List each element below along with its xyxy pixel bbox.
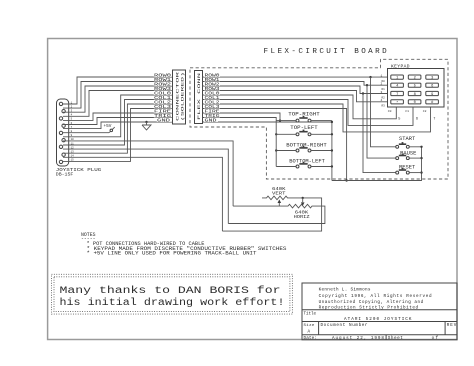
svg-text:Date:: Date: — [304, 336, 318, 341]
keypad U1 — [388, 63, 445, 107]
svg-text:Many thanks to DAN BORIS for: Many thanks to DAN BORIS for — [60, 285, 281, 296]
wire COL1 plug to connector — [63, 100, 173, 146]
svg-text:7: 7 — [433, 117, 435, 121]
node row1 pause tap — [366, 84, 368, 86]
svg-text:+5V: +5V — [104, 124, 112, 129]
svg-text:August 22, 1998: August 22, 1998 — [332, 336, 384, 341]
node GND junction — [145, 121, 147, 123]
svg-text:C0: C0 — [388, 110, 392, 113]
wire FIRE board side to top-right button — [203, 113, 281, 121]
wire COL1 board side to keypad C1 — [203, 100, 414, 126]
wire ROW3 board side — [203, 91, 388, 102]
switch PAUSE — [396, 149, 417, 159]
node rail bottom-right junction — [331, 149, 333, 151]
keypad keys row 3 — [391, 91, 439, 97]
wire ROW3 plug to connector — [63, 91, 173, 117]
svg-text:R3: R3 — [382, 105, 386, 108]
node row0 start tap — [369, 76, 371, 78]
switch START — [396, 135, 416, 148]
svg-text:2: 2 — [414, 77, 416, 81]
svg-text:START: START — [399, 135, 416, 142]
wire top-left right terminal — [311, 133, 332, 135]
net labels right connector — [204, 73, 220, 124]
switch BOTTOM-RIGHT — [286, 141, 327, 152]
svg-text:* +5V LINE ONLY USED FOR POWER: * +5V LINE ONLY USED FOR POWERING TRACK-… — [87, 251, 257, 257]
connector J2 board side box — [195, 71, 203, 124]
node FIRE top-right junction — [279, 119, 281, 121]
node start common junction — [420, 146, 422, 148]
switch RESET — [396, 163, 416, 174]
svg-text:4: 4 — [381, 99, 383, 102]
svg-text:5: 5 — [398, 117, 400, 121]
svg-text:C2: C2 — [423, 110, 427, 113]
potentiometer R1 640K VERT — [222, 186, 321, 231]
wire COL2 board side to keypad C2 — [203, 104, 431, 132]
notes text — [81, 232, 287, 257]
svg-text:DB-15F: DB-15F — [56, 172, 74, 177]
node pot top junction — [302, 197, 304, 199]
svg-text:3: 3 — [431, 77, 433, 81]
svg-text:ATARI 5200 JOYSTICK: ATARI 5200 JOYSTICK — [344, 317, 412, 322]
svg-text:6: 6 — [431, 85, 433, 89]
node rail top-left junction — [331, 133, 333, 135]
potentiometer R2 640K HORIZ — [228, 198, 325, 224]
node rail top-left tap — [275, 133, 277, 135]
wire reset right terminal — [410, 172, 422, 174]
node row2 reset tap — [362, 92, 364, 94]
wire rail to switch common — [332, 147, 422, 181]
keypad pin numbers left — [381, 74, 386, 107]
wire FIRE plug to connector — [63, 113, 173, 120]
switch BOTTOM-LEFT — [289, 158, 325, 168]
svg-text:5: 5 — [414, 85, 416, 89]
svg-text:3: 3 — [381, 91, 383, 94]
wire bottom-left right terminal — [311, 166, 332, 168]
svg-text:A: A — [308, 330, 311, 335]
wire TRIG board side to fire left rail — [203, 118, 277, 167]
wire start left riser — [371, 77, 396, 147]
svg-text:1: 1 — [381, 74, 383, 77]
plug pin numbers — [56, 101, 102, 177]
wire pot horiz from plug — [63, 157, 222, 231]
svg-text:C1: C1 — [405, 110, 409, 113]
wire ROW2 board side — [203, 86, 388, 94]
wire GND plug to connector — [63, 122, 173, 129]
title block — [302, 283, 457, 341]
wire pause right terminal — [410, 157, 422, 159]
svg-text:Unauthorized Copying, Altering: Unauthorized Copying, Altering and — [319, 300, 424, 305]
svg-text:Reproduction Strictly Prohibit: Reproduction Strictly Prohibited — [319, 305, 419, 310]
svg-text:Document Number: Document Number — [321, 323, 368, 328]
svg-text:GND: GND — [205, 118, 217, 124]
wire fire right rail — [331, 121, 333, 181]
connector J1 cable side box — [173, 70, 186, 124]
keypad keys row 4 — [391, 100, 439, 106]
svg-text:2: 2 — [381, 83, 383, 86]
switch TOP-LEFT — [290, 124, 318, 136]
switch TOP-RIGHT — [288, 110, 320, 122]
svg-text:of: of — [432, 336, 439, 341]
wire +5V from plug — [63, 132, 109, 134]
wire TRIG plug to connector — [63, 118, 173, 125]
svg-text:HORIZ: HORIZ — [294, 214, 310, 220]
wire ROW0 board side — [203, 76, 388, 78]
power symbol +5V — [104, 124, 115, 133]
wire COL3 board side to common bottom wire — [203, 109, 347, 181]
wire COL0 plug to connector — [63, 95, 173, 137]
keypad keys row 1 — [391, 75, 439, 81]
wire COL3 plug to connector — [63, 109, 173, 162]
node COL3 bottom junction — [345, 179, 347, 181]
svg-text:*: * — [396, 100, 398, 105]
svg-text:7: 7 — [396, 93, 398, 97]
wire bottom-right right terminal — [311, 150, 332, 152]
wire pause left riser — [367, 85, 396, 158]
node pause common junction — [420, 157, 422, 159]
wire top-right right terminal — [311, 120, 332, 122]
wire fire left terminals — [276, 121, 296, 167]
svg-text:Kenneth L. Simmons: Kenneth L. Simmons — [319, 287, 371, 292]
svg-text:FLEX CONN: FLEX CONN — [198, 73, 202, 120]
keypad pin labels bottom — [388, 110, 436, 122]
svg-text:Title: Title — [304, 311, 317, 316]
svg-text:his initial drawing work effor: his initial drawing work effort! — [60, 297, 285, 308]
wire GND board side — [203, 121, 332, 123]
svg-text:Size: Size — [304, 323, 315, 328]
wire pot vert from plug — [63, 141, 233, 206]
wire ROW2 plug to connector — [63, 86, 173, 112]
node rail bottom-left junction — [331, 165, 333, 167]
svg-text:6: 6 — [416, 117, 418, 121]
svg-text:CONNECTOR: CONNECTOR — [176, 72, 180, 121]
wire reset left riser — [363, 94, 396, 173]
ground symbol — [142, 122, 151, 130]
border frame — [48, 39, 457, 340]
thanks box — [52, 274, 293, 314]
svg-text:Copyright 1996, All Rights Res: Copyright 1996, All Rights Reserved — [319, 294, 432, 299]
svg-text:GND: GND — [157, 118, 170, 124]
svg-text:9: 9 — [431, 93, 433, 97]
joystick plug DB-15F — [57, 99, 69, 166]
node rail bottom-right tap — [275, 149, 277, 151]
svg-text:0: 0 — [414, 101, 416, 105]
net labels left connector — [154, 73, 172, 124]
keypad keys row 2 — [391, 83, 439, 89]
wire pot loop top from plug — [63, 149, 228, 223]
svg-text:(SOLDERED): (SOLDERED) — [180, 72, 185, 121]
wire ROW1 board side — [203, 82, 388, 86]
node GND rail junction — [331, 121, 333, 123]
svg-text:8: 8 — [414, 93, 416, 97]
wire ROW1 plug to connector — [63, 82, 173, 109]
wire COL2 plug to connector — [63, 104, 173, 153]
svg-text:Sheet: Sheet — [388, 336, 403, 341]
flex board dashed outline — [190, 59, 448, 179]
svg-text:REV: REV — [447, 323, 457, 328]
wire ROW0 plug to connector — [63, 77, 173, 104]
node reset common junction — [420, 171, 422, 173]
wire COL0 board side to keypad C0 — [203, 95, 397, 119]
